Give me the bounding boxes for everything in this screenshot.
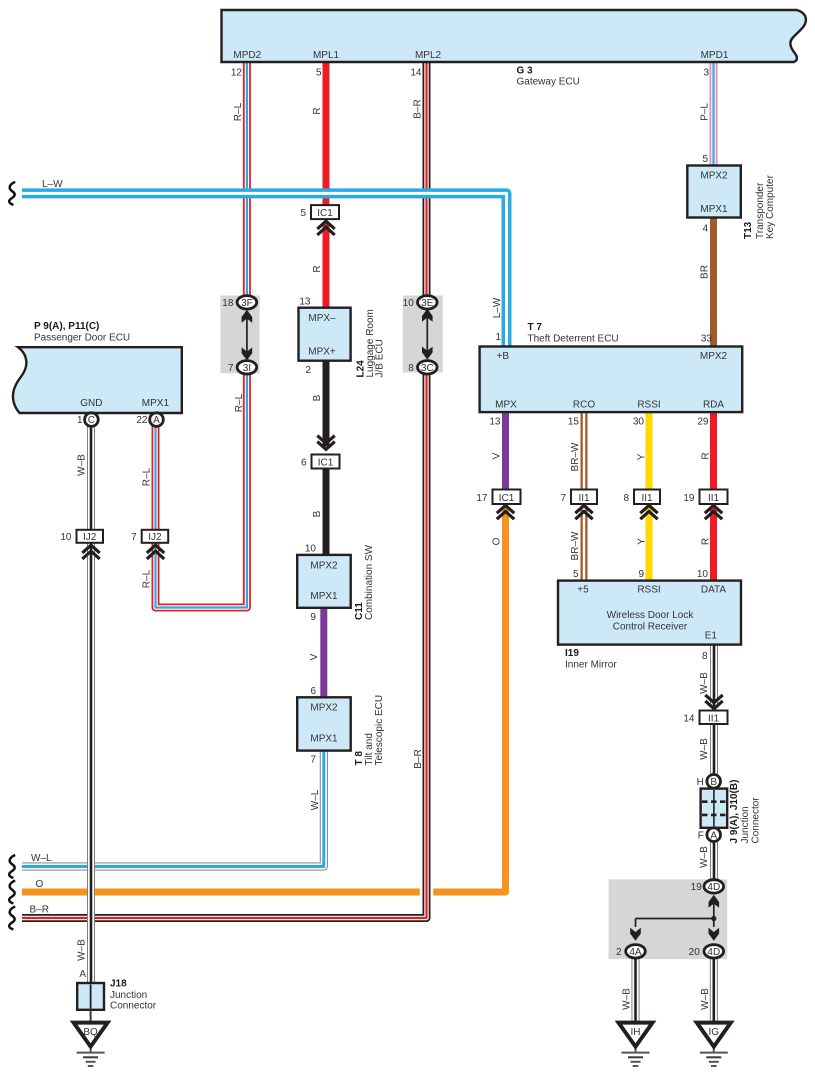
J18 junction connector box [77, 983, 104, 1010]
svg-text:II1: II1 [708, 713, 720, 724]
squiggle break L-W [9, 182, 15, 205]
svg-text:30: 30 [633, 417, 645, 428]
svg-text:R–L: R–L [233, 102, 244, 121]
svg-text:MPX+: MPX+ [308, 347, 336, 358]
svg-text:I19: I19 [565, 648, 579, 659]
svg-text:Connector: Connector [110, 1001, 157, 1012]
svg-text:7: 7 [560, 493, 566, 504]
svg-text:Key Computer: Key Computer [765, 174, 776, 239]
svg-text:7: 7 [228, 363, 234, 374]
svg-text:5: 5 [300, 208, 306, 219]
T7 labels [489, 322, 727, 428]
svg-text:3E: 3E [421, 298, 434, 309]
wire Y from T7 RSSI to II1-8 [646, 412, 653, 490]
wire BR from T13 pin4 to T7 pin33 [710, 217, 717, 347]
svg-text:18: 18 [222, 298, 234, 309]
svg-text:MPX–: MPX– [308, 313, 336, 324]
L24 labels [299, 297, 385, 378]
pin ellipse 3I [228, 361, 257, 374]
connector IC1 pin17 [476, 490, 520, 520]
pin circle A (Passenger MPX1) [136, 413, 163, 427]
gray connector zone 4D/4A [609, 879, 728, 959]
svg-text:2: 2 [305, 365, 311, 376]
svg-text:T 7: T 7 [528, 322, 543, 333]
svg-text:B: B [312, 510, 323, 517]
wire W-B from 4D-20 to ground IG [710, 956, 718, 1023]
squiggle break B-R [9, 907, 15, 930]
wire V from T7 MPX to IC1-17 [502, 412, 509, 490]
svg-text:BQ: BQ [83, 1027, 98, 1038]
Passenger Door ECU box [13, 347, 182, 413]
svg-text:A: A [79, 969, 86, 980]
connector IJ2 pin10 [60, 530, 103, 559]
svg-text:Gateway ECU: Gateway ECU [517, 77, 580, 88]
connector II1 pin8 [623, 490, 660, 520]
svg-text:MPX1: MPX1 [310, 734, 338, 745]
svg-text:E1: E1 [705, 631, 718, 642]
svg-text:RDA: RDA [703, 400, 724, 411]
svg-text:1: 1 [495, 332, 501, 343]
wire W-B from junction circle A to 4D-19 [710, 840, 718, 883]
ground BQ [74, 1023, 108, 1066]
pin ellipse 3F [222, 296, 256, 309]
svg-text:MPD2: MPD2 [233, 50, 261, 61]
J9/J10 labels [729, 780, 762, 844]
T13 labels [700, 154, 776, 239]
pin ellipse 4D-19 [691, 880, 724, 893]
svg-text:IC1: IC1 [317, 208, 333, 219]
svg-text:9: 9 [638, 569, 644, 580]
svg-text:L–W: L–W [492, 297, 503, 318]
gray connector zone 3F/3I [220, 296, 259, 374]
svg-text:W–B: W–B [77, 939, 88, 961]
svg-text:Junction: Junction [110, 990, 147, 1001]
svg-text:3: 3 [703, 68, 709, 79]
svg-text:T13: T13 [743, 221, 754, 239]
svg-text:II1: II1 [578, 493, 590, 504]
svg-text:MPX1: MPX1 [700, 204, 728, 215]
connector IC1 pin6 [301, 436, 340, 469]
ground IH [619, 1023, 653, 1066]
wire R from G3 MPL1 to IC1-5 [323, 60, 330, 206]
Wireless receiver labels [565, 569, 726, 671]
svg-text:W–B: W–B [700, 988, 711, 1010]
svg-text:5: 5 [316, 68, 322, 79]
svg-text:B–R: B–R [30, 905, 49, 916]
arrow network 4D-19 to 4A-2 and 4D-20 [630, 895, 719, 941]
C11 labels [305, 544, 375, 624]
svg-text:R: R [312, 265, 323, 272]
svg-text:6: 6 [310, 686, 316, 697]
svg-text:IC1: IC1 [499, 493, 515, 504]
svg-text:V: V [492, 452, 503, 459]
svg-text:IH: IH [631, 1027, 641, 1038]
svg-text:7: 7 [310, 755, 316, 766]
svg-text:20: 20 [689, 947, 701, 958]
wire P-L from G3 MPD1 to T13 pin5 [710, 60, 718, 166]
connector II1 pin19 [683, 490, 727, 520]
svg-text:W–B: W–B [77, 454, 88, 476]
svg-text:R: R [312, 107, 323, 114]
svg-text:9: 9 [310, 612, 316, 623]
wire B-R from G3 MPL2 to 3E [423, 60, 431, 303]
svg-text:10: 10 [697, 569, 709, 580]
wire BR-W from II1-7 to receiver +5 [581, 508, 588, 582]
T8 Tilt and Telescopic ECU box [297, 697, 351, 750]
wire R-L from G3 MPD2 to 3F [243, 60, 251, 303]
svg-text:J18: J18 [110, 979, 127, 990]
svg-text:2: 2 [616, 947, 622, 958]
wire O orange from IC1-17 down and left to edge [22, 508, 506, 892]
J9/J10 junction connector box [701, 789, 728, 828]
wire R-L from MPX1 pin A to IJ2-7 [152, 426, 160, 530]
svg-text:17: 17 [476, 493, 488, 504]
pin circle C (Passenger GND) [77, 413, 98, 427]
wire W-B from receiver E1 to junction circle B [710, 645, 718, 776]
pin ellipse 4D-20 [689, 945, 724, 958]
svg-text:Control Receiver: Control Receiver [613, 622, 688, 633]
squiggle break W-L [9, 855, 15, 878]
wire V from C11 pin9 to T8 pin6 [320, 608, 327, 699]
svg-text:R: R [701, 538, 712, 545]
svg-text:J/B ECU: J/B ECU [375, 339, 386, 377]
svg-text:P 9(A), P11(C): P 9(A), P11(C) [34, 321, 99, 332]
svg-text:22: 22 [136, 415, 148, 426]
wire B from L24 pin2 to IC1-6 [323, 360, 330, 447]
svg-text:MPD1: MPD1 [701, 50, 729, 61]
svg-text:MPX2: MPX2 [700, 351, 728, 362]
svg-text:8: 8 [623, 493, 629, 504]
wire R-L from 3I down, left, up to IJ2-7 [156, 365, 247, 608]
svg-text:II1: II1 [641, 493, 653, 504]
svg-text:4D: 4D [707, 947, 720, 958]
svg-text:L–W: L–W [42, 179, 63, 190]
svg-text:A: A [710, 830, 717, 841]
svg-text:W–B: W–B [699, 672, 710, 694]
Wireless Door Lock Control Receiver box [558, 581, 741, 645]
svg-text:RSSI: RSSI [637, 585, 660, 596]
svg-text:1: 1 [77, 415, 83, 426]
svg-text:3C: 3C [421, 363, 434, 374]
svg-text:19: 19 [683, 493, 695, 504]
wire B from IC1-6 to C11 pin10 [323, 468, 330, 556]
wire stub J18 to ground BQ [90, 1010, 92, 1023]
svg-text:O: O [492, 537, 503, 545]
wire R from II1-19 to receiver DATA [710, 508, 717, 582]
svg-text:IC1: IC1 [318, 457, 334, 468]
svg-text:J 9(A), J10(B): J 9(A), J10(B) [729, 780, 740, 844]
pin ellipse 3E [403, 296, 437, 309]
svg-text:Junction: Junction [740, 806, 751, 843]
svg-text:II1: II1 [708, 493, 720, 504]
svg-text:G 3: G 3 [517, 66, 534, 77]
svg-text:5: 5 [702, 154, 708, 165]
svg-text:29: 29 [697, 417, 709, 428]
svg-text:13: 13 [299, 297, 311, 308]
svg-text:4D: 4D [707, 882, 720, 893]
wire L-W horizontal from left edge to T7 +B [22, 193, 507, 347]
svg-text:Wireless Door Lock: Wireless Door Lock [607, 610, 695, 621]
svg-text:Theft Deterrent ECU: Theft Deterrent ECU [528, 334, 619, 345]
svg-text:MPX2: MPX2 [310, 703, 338, 714]
svg-text:3F: 3F [241, 298, 253, 309]
svg-text:BR: BR [700, 265, 711, 279]
white casing at B-R/orange crossing [420, 883, 434, 901]
connector II1 pin7 [560, 490, 597, 520]
J18 labels [79, 969, 156, 1012]
svg-text:Connector: Connector [751, 797, 762, 844]
svg-text:B: B [710, 777, 717, 788]
svg-text:5: 5 [573, 569, 579, 580]
svg-text:O: O [36, 879, 44, 890]
squiggle break O [9, 881, 15, 904]
svg-text:MPL2: MPL2 [415, 50, 442, 61]
svg-text:W–B: W–B [699, 846, 710, 868]
svg-text:+B: +B [497, 351, 510, 362]
svg-text:H: H [697, 777, 704, 788]
svg-text:R–L: R–L [142, 467, 153, 486]
connector IJ2 pin7 [131, 530, 168, 559]
svg-text:BR–W: BR–W [570, 531, 581, 560]
svg-text:MPX2: MPX2 [310, 561, 338, 572]
wire W-B left column from GND pin C to J18 [87, 426, 95, 983]
svg-text:14: 14 [410, 68, 422, 79]
svg-text:15: 15 [568, 417, 580, 428]
svg-text:R–L: R–L [142, 569, 153, 588]
svg-text:Y: Y [637, 453, 648, 460]
svg-text:DATA: DATA [701, 585, 727, 596]
pin circle A (junction F) [698, 828, 721, 842]
T7 Theft Deterrent ECU box [480, 347, 743, 413]
svg-text:10: 10 [60, 532, 72, 543]
svg-text:Inner Mirror: Inner Mirror [565, 660, 617, 671]
ground IG [697, 1023, 731, 1066]
svg-text:IJ2: IJ2 [148, 532, 162, 543]
arrow link 3F to 3I [242, 310, 253, 361]
svg-text:B–R: B–R [413, 99, 424, 118]
svg-text:8: 8 [408, 363, 414, 374]
svg-text:RCO: RCO [573, 400, 595, 411]
svg-text:10: 10 [403, 298, 415, 309]
svg-text:4A: 4A [629, 947, 642, 958]
wire R from IC1-5 to L24 pin13 [323, 224, 330, 309]
svg-text:W–B: W–B [699, 738, 710, 760]
svg-text:12: 12 [231, 68, 243, 79]
svg-text:F: F [698, 830, 704, 841]
Passenger Door ECU labels [34, 321, 169, 409]
svg-text:W–L: W–L [31, 853, 52, 864]
svg-text:GND: GND [80, 398, 102, 409]
svg-text:+5: +5 [577, 585, 589, 596]
wire B-R from 3C down and left to edge [22, 365, 427, 918]
svg-text:W–B: W–B [622, 988, 633, 1010]
svg-text:Passenger Door ECU: Passenger Door ECU [34, 333, 130, 344]
wire Y from II1-8 to receiver RSSI [646, 508, 653, 582]
svg-text:B: B [312, 394, 323, 401]
svg-text:B–R: B–R [413, 749, 424, 768]
svg-text:A: A [153, 415, 160, 426]
wire R from T7 RDA to II1-19 [710, 412, 717, 490]
svg-text:R–L: R–L [234, 393, 245, 412]
svg-text:10: 10 [305, 544, 317, 555]
svg-text:IJ2: IJ2 [83, 532, 97, 543]
svg-text:R: R [701, 452, 712, 459]
svg-text:MPX1: MPX1 [310, 591, 338, 602]
svg-text:19: 19 [691, 882, 703, 893]
svg-text:14: 14 [683, 713, 695, 724]
G3 labels [231, 50, 729, 88]
svg-text:MPX: MPX [495, 400, 517, 411]
svg-text:MPX2: MPX2 [700, 170, 728, 181]
T13 Transponder Key Computer box [687, 166, 741, 218]
svg-text:MPL1: MPL1 [313, 50, 340, 61]
pin ellipse 4A-2 [616, 945, 645, 958]
wire W-L from T8 pin7 down and left to edge [22, 750, 324, 867]
svg-text:Y: Y [637, 538, 648, 545]
T8 labels [310, 686, 385, 766]
svg-text:C: C [88, 415, 95, 426]
arrow link 3E to 3C [422, 309, 433, 360]
svg-text:6: 6 [301, 457, 307, 468]
L24 Luggage Room J/B ECU box [299, 308, 351, 361]
svg-text:4: 4 [702, 224, 708, 235]
gray connector zone 3E/3C [403, 296, 443, 373]
svg-text:MPX1: MPX1 [142, 398, 170, 409]
connector IC1 pin5 [300, 205, 339, 235]
svg-text:W–L: W–L [310, 789, 321, 810]
svg-text:13: 13 [489, 417, 501, 428]
svg-text:Combination SW: Combination SW [364, 544, 375, 620]
svg-text:IG: IG [709, 1027, 720, 1038]
pin ellipse 3C [408, 361, 437, 374]
svg-text:P–L: P–L [700, 103, 711, 121]
C11 Combination SW box [297, 555, 351, 608]
connector II1 pin14 [683, 695, 727, 724]
svg-text:33: 33 [701, 334, 713, 345]
svg-text:3I: 3I [243, 363, 251, 374]
svg-text:RSSI: RSSI [637, 400, 660, 411]
wire W-B from 4A-2 to ground IH [632, 956, 640, 1023]
svg-text:7: 7 [131, 532, 137, 543]
svg-text:BR–W: BR–W [570, 442, 581, 471]
svg-text:8: 8 [702, 651, 708, 662]
wire BR-W from T7 RCO to II1-7 [581, 412, 588, 490]
pin circle B (junction H) [697, 775, 721, 789]
svg-text:V: V [309, 653, 320, 660]
svg-text:Telescopic ECU: Telescopic ECU [374, 695, 385, 766]
Gateway ECU G3 box [222, 10, 806, 62]
